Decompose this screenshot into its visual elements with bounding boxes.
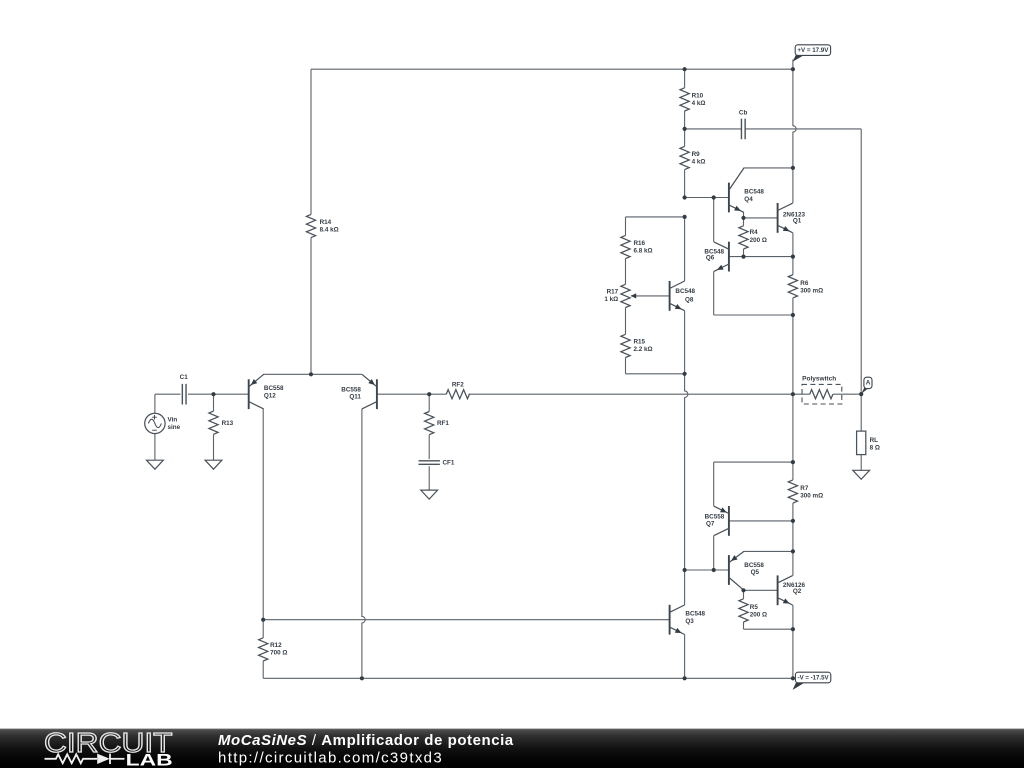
- junction (713.7,570.0): [712, 568, 716, 572]
- junction (743.5,256.6): [741, 255, 745, 259]
- wire top +V rail: [311, 68, 793, 70]
- wire Q1 emitter to R6: [792, 233, 794, 275]
- wire Q3 collector column: [684, 570, 686, 605]
- ground under RL: [853, 470, 870, 479]
- wire Q6 collector riser: [713, 198, 715, 242]
- wire Q5 base line: [685, 569, 729, 571]
- wire Q6 emitter drop: [713, 271, 715, 315]
- svg-text:R14: R14: [320, 219, 332, 226]
- wire Q4 emitter to R4: [743, 212, 745, 225]
- resistor RF1: [425, 412, 434, 435]
- wire R16 top tie: [626, 216, 685, 218]
- wire Q2 base line: [744, 589, 778, 591]
- wire CF1 to ground: [428, 466, 430, 490]
- wire R7 top lead: [792, 462, 794, 480]
- svg-text:Q5: Q5: [751, 569, 760, 576]
- wire Vin bottom lead: [154, 434, 156, 461]
- wire R15 bottom tie: [626, 373, 685, 375]
- junction (684.6,69.2): [683, 67, 687, 71]
- wire Q5 emitter tie: [744, 550, 793, 552]
- wire Q7 base line: [729, 520, 793, 522]
- svg-text:4 kΩ: 4 kΩ: [692, 158, 706, 165]
- wire Q11 collector column with hop: [362, 409, 365, 678]
- svg-text:LAB: LAB: [126, 751, 173, 768]
- svg-text:4 kΩ: 4 kΩ: [692, 100, 706, 107]
- svg-text:Q6: Q6: [706, 255, 715, 262]
- wire RF1 to CF1: [428, 435, 430, 459]
- node A: [861, 377, 872, 394]
- svg-text:R16: R16: [634, 240, 646, 247]
- source Vin sine: [145, 413, 165, 433]
- transistor Q2 2N6126: [778, 575, 793, 605]
- resistor RF2: [446, 390, 469, 399]
- wire R13 bottom lead: [213, 434, 215, 460]
- resistor R9: [680, 146, 689, 169]
- svg-text:R15: R15: [634, 339, 646, 346]
- resistor R14: [306, 214, 315, 237]
- resistor R13: [209, 411, 218, 434]
- wire R7 junction to Q2 collector: [792, 521, 794, 576]
- junction (792.9,551.4): [791, 549, 795, 553]
- wire Q11 base to RF2: [377, 393, 446, 395]
- svg-text:8 Ω: 8 Ω: [870, 444, 880, 451]
- svg-text:BC558: BC558: [341, 386, 361, 393]
- node label +V = 17.9V: [793, 45, 831, 62]
- wire Q7 emitter tie: [714, 461, 793, 463]
- transistor Q12 BC558: [249, 374, 264, 409]
- wire R6 bottom to output node: [792, 298, 794, 394]
- junction (361.9,678.3): [360, 676, 364, 680]
- svg-text:R7: R7: [800, 485, 809, 492]
- junction (792.9,462.1): [791, 460, 795, 464]
- resistor R12: [259, 638, 268, 661]
- svg-text:Q1: Q1: [793, 218, 802, 225]
- wire output right drop: [860, 129, 862, 394]
- transistor Q6 BC548: [714, 242, 729, 272]
- wire R9 bottom lead: [684, 170, 686, 198]
- junction (792.9,629.2): [791, 627, 795, 631]
- wire Q3 base line: [263, 619, 669, 621]
- svg-text:300 mΩ: 300 mΩ: [800, 288, 823, 295]
- wire Q4 base line: [685, 197, 729, 199]
- wire Q8 emitter column: [684, 311, 686, 374]
- svg-text:200 Ω: 200 Ω: [750, 612, 767, 619]
- junction (792.9,394.2): [791, 392, 795, 396]
- svg-text:RF2: RF2: [452, 382, 464, 389]
- svg-text:Q11: Q11: [349, 394, 361, 401]
- resistor R15: [621, 334, 630, 357]
- wire +V to Q1 collector: [792, 168, 794, 203]
- junction (684.6,373.8): [683, 372, 687, 376]
- wire Q7 collector drop: [713, 536, 715, 570]
- junction (684.6,216.9): [683, 215, 687, 219]
- svg-text:A: A: [866, 380, 871, 387]
- transistor Q7 BC558: [714, 506, 729, 536]
- junction (861.2,394.1): [859, 392, 863, 396]
- capacitor Cb: [741, 119, 745, 140]
- wire Cb left: [685, 128, 741, 130]
- junction (684.6,128.9): [683, 127, 687, 131]
- svg-text:BC558: BC558: [264, 385, 284, 392]
- wire Vin top lead: [154, 394, 156, 413]
- svg-text:RF1: RF1: [437, 420, 449, 427]
- svg-text:R6: R6: [800, 280, 809, 287]
- resistor R17 rheostat: [621, 284, 630, 307]
- svg-text:-V = -17.5V: -V = -17.5V: [798, 674, 830, 681]
- wire Q12 collector column: [262, 409, 264, 638]
- resistor R7: [788, 480, 797, 503]
- wire Q1 base line: [744, 217, 778, 219]
- wire Vin to C1: [155, 393, 181, 395]
- R17 wiper arrow: [631, 293, 637, 298]
- svg-text:C1: C1: [180, 374, 189, 381]
- wire R10 top lead: [684, 69, 686, 88]
- wire Q8 collector column: [684, 217, 686, 281]
- wire R16 top lead: [625, 217, 627, 236]
- wire R17 wiper to Q8 base: [631, 295, 670, 297]
- wire Q6 base line: [729, 256, 793, 258]
- wire R16-R17 segment: [625, 259, 627, 285]
- junction (684.6,197.5): [683, 195, 687, 199]
- wire Q7 emitter riser: [713, 462, 715, 506]
- ground under R13: [205, 460, 222, 469]
- junction (792.9,678.3): [791, 676, 795, 680]
- polyswitch box: [802, 384, 842, 404]
- transistor Q11 BC558: [362, 374, 377, 409]
- junction (743.5,217.9): [741, 216, 745, 220]
- svg-text:sine: sine: [168, 424, 181, 431]
- wire RL to ground: [860, 455, 862, 471]
- wire center column with hop: [685, 374, 688, 570]
- polyswitch resistor: [810, 390, 833, 399]
- svg-text:6.8 kΩ: 6.8 kΩ: [634, 247, 653, 254]
- node label -V = -17.5V: [793, 672, 831, 690]
- svg-text:Q2: Q2: [793, 588, 802, 595]
- wire R17-R15 segment: [625, 308, 627, 335]
- wire to Polyswitch: [793, 393, 810, 395]
- wire R14 top lead: [310, 69, 312, 214]
- junction (792.9,520.9): [791, 519, 795, 523]
- svg-text:R12: R12: [270, 642, 282, 649]
- junction (792.9,256.6): [791, 255, 795, 259]
- resistor RL: [857, 431, 866, 455]
- wire R7 bottom lead: [792, 503, 794, 521]
- svg-text:R13: R13: [222, 420, 234, 427]
- svg-text:BC548: BC548: [685, 611, 705, 618]
- wire output column to Q7 tie: [792, 394, 794, 462]
- wire R15 bottom lead: [625, 358, 627, 374]
- wire R10-R9 segment: [684, 111, 686, 146]
- svg-text:Q12: Q12: [264, 392, 276, 399]
- junction (792.9,167.9): [791, 166, 795, 170]
- svg-text:Polyswitch: Polyswitch: [802, 375, 836, 382]
- svg-text:2.2 kΩ: 2.2 kΩ: [634, 346, 653, 353]
- wire Polyswitch to node A: [833, 393, 861, 395]
- svg-text:BC548: BC548: [744, 188, 764, 195]
- junction (684.6,678.3): [683, 676, 687, 680]
- svg-text:R5: R5: [750, 604, 759, 611]
- svg-text:http://circuitlab.com/c39txd3: http://circuitlab.com/c39txd3: [218, 749, 443, 766]
- svg-text:BC558: BC558: [705, 513, 725, 520]
- wire diff pair emitter tie: [263, 373, 362, 375]
- svg-text:Vin: Vin: [168, 416, 178, 423]
- svg-text:8.4 kΩ: 8.4 kΩ: [320, 226, 339, 233]
- wire R5 bottom lead: [743, 622, 745, 629]
- svg-text:R17: R17: [607, 288, 619, 295]
- junction (743.5,590.3): [741, 588, 745, 592]
- wire bottom -V rail: [263, 677, 793, 679]
- resistor R10: [680, 88, 689, 111]
- junction (684.6,570.0): [683, 568, 687, 572]
- transistor Q8 BC548: [670, 281, 685, 311]
- resistor R5: [739, 599, 748, 622]
- ground under Vin: [147, 460, 164, 469]
- svg-text:300 mΩ: 300 mΩ: [800, 493, 823, 500]
- junction (311,374.3): [309, 372, 313, 376]
- junction (263.2,619.7): [261, 618, 265, 622]
- wire R4 bottom lead: [743, 249, 745, 257]
- svg-text:RL: RL: [870, 437, 879, 444]
- logo resistor-diode squiggle: [45, 754, 98, 763]
- svg-text:R9: R9: [692, 151, 701, 158]
- capacitor C1: [182, 384, 186, 405]
- wire RF2 to output node: [468, 393, 793, 395]
- junction (213.5,394.2): [211, 392, 215, 396]
- wire RF1 top lead: [428, 394, 430, 411]
- junction (792.9,315.0): [791, 313, 795, 317]
- wire Q3 emitter to -V rail: [684, 635, 686, 679]
- svg-text:700 Ω: 700 Ω: [270, 650, 287, 657]
- footer bar: [0, 729, 1024, 768]
- svg-text:Q4: Q4: [744, 196, 753, 203]
- svg-text:BC548: BC548: [675, 288, 695, 295]
- svg-text:Q3: Q3: [685, 618, 694, 625]
- ground under CF1: [421, 490, 438, 499]
- resistor R6: [788, 275, 797, 298]
- wire +V column with hop: [793, 60, 796, 168]
- svg-text:1 kΩ: 1 kΩ: [604, 296, 618, 303]
- wire R14 bottom to diff-pair node: [310, 238, 312, 375]
- capacitor CF1: [419, 461, 440, 465]
- junction (713.7,197.5): [712, 195, 716, 199]
- transistor Q4 BC548: [729, 168, 744, 212]
- resistor R4: [739, 226, 748, 249]
- resistor R16: [621, 235, 630, 258]
- svg-text:+V = 17.9V: +V = 17.9V: [797, 47, 829, 54]
- svg-text:CF1: CF1: [443, 459, 455, 466]
- wire R5 bottom to Q2 emitter: [744, 628, 793, 630]
- transistor Q5 BC558: [729, 551, 744, 590]
- svg-text:Q7: Q7: [706, 521, 715, 528]
- svg-text:R10: R10: [692, 92, 704, 99]
- wire C1 to Q12 base: [188, 393, 249, 395]
- wire Q2 emitter to -V rail: [792, 605, 794, 678]
- svg-text:200 Ω: 200 Ω: [750, 237, 767, 244]
- svg-text:MoCaSiNeS / Amplificador de po: MoCaSiNeS / Amplificador de potencia: [218, 732, 514, 749]
- wire R5 top lead: [743, 590, 745, 599]
- transistor Q3 BC548: [670, 605, 685, 635]
- transistor Q1 2N6123: [778, 203, 793, 233]
- wire Q4 collector to +V column: [744, 167, 793, 169]
- junction (429.2,394.2): [427, 392, 431, 396]
- svg-text:BC558: BC558: [744, 562, 764, 569]
- wire R13 top lead: [213, 394, 215, 411]
- wire Cb right to output drop: [746, 128, 862, 130]
- svg-text:Cb: Cb: [739, 110, 748, 117]
- wire Q6 emitter to R6 bottom: [714, 314, 793, 316]
- svg-text:R4: R4: [750, 229, 759, 236]
- wire node A to RL: [860, 394, 862, 431]
- junction (792.9,69.2): [791, 67, 795, 71]
- wire R12 bottom lead: [262, 661, 264, 678]
- svg-text:Q8: Q8: [685, 296, 694, 303]
